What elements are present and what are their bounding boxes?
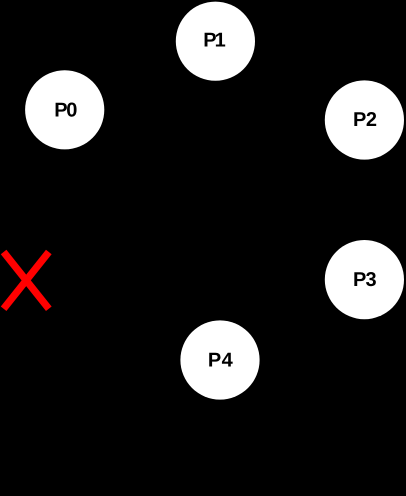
svg-text:P1: P1 (203, 29, 225, 51)
svg-text:P4: P4 (208, 349, 234, 371)
svg-text:P3: P3 (353, 269, 377, 291)
svg-text:P2: P2 (353, 109, 377, 131)
svg-text:P0: P0 (54, 99, 77, 121)
